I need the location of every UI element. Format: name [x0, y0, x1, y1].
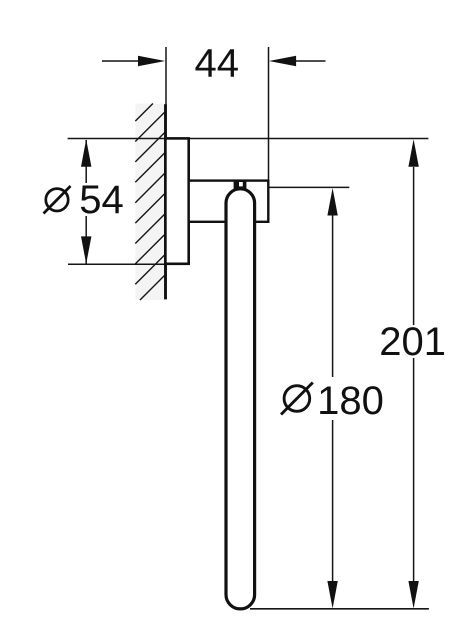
svg-text:201: 201: [379, 320, 446, 364]
svg-text:54: 54: [79, 178, 124, 222]
svg-text:44: 44: [195, 41, 240, 85]
svg-text:180: 180: [317, 379, 384, 423]
